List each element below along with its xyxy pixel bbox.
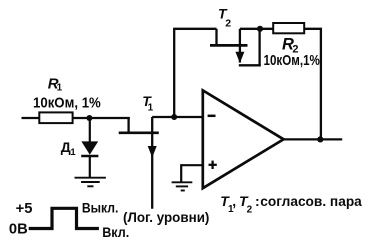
transistor T2 (compensation JFET) <box>210 29 248 63</box>
svg-text:Выкл.: Выкл. <box>82 199 119 215</box>
svg-text:Д: Д <box>61 139 71 155</box>
ground below D1 <box>75 178 106 187</box>
svg-text:1: 1 <box>70 147 76 158</box>
svg-text:(Лог. уровни): (Лог. уровни) <box>123 209 209 225</box>
wire: summing junction up to top feedback rail <box>173 29 175 117</box>
node: output junction with feedback <box>317 136 323 142</box>
wire: feedback right vertical down to output <box>320 29 322 140</box>
svg-text:0B: 0B <box>9 221 28 238</box>
svg-text:,: , <box>232 193 236 209</box>
wire: T2 gate loop to source (bottom and right of loop) <box>239 29 261 67</box>
svg-text:согласов. пара: согласов. пара <box>260 193 362 209</box>
wire: top rail to T2 drain <box>173 28 216 30</box>
op-amp U1 <box>203 90 284 188</box>
resistor R2 <box>273 23 304 33</box>
node: junction of gate loop with rail <box>257 26 263 32</box>
label T1 <box>142 93 153 114</box>
svg-text:10кОм,1%: 10кОм,1% <box>264 52 320 69</box>
label D1 <box>61 139 77 158</box>
wire: input stub left of R1 <box>22 117 41 119</box>
svg-text:2: 2 <box>247 205 253 216</box>
svg-text:10кОм, 1%: 10кОм, 1% <box>33 94 101 111</box>
wire: junction down to diode anode <box>89 118 91 142</box>
wire: T1 source to op-amp inverting input (summing junction) <box>152 116 203 118</box>
caption: T1 T2 matched pair <box>220 193 362 216</box>
ground at op-amp noninverting input <box>172 182 193 190</box>
node: summing junction <box>171 114 177 120</box>
label R1 <box>48 75 63 93</box>
resistor R1 <box>39 112 72 123</box>
svg-text:Вкл.: Вкл. <box>102 224 129 240</box>
svg-text:1: 1 <box>148 103 154 114</box>
wire: noninverting input to ground <box>181 164 203 182</box>
svg-text:+5: +5 <box>16 200 33 217</box>
logic levels pulse waveform <box>29 208 99 228</box>
wire: R1 to T1 drain <box>73 117 130 119</box>
node: junction above diode D1 <box>86 115 92 121</box>
svg-text::: : <box>255 193 260 209</box>
wire: op-amp output <box>283 138 342 140</box>
transistor T1 (JFET switch) <box>119 117 159 209</box>
label T2 <box>218 5 231 29</box>
wire: T2 source/top rail to R2 <box>240 28 274 30</box>
diode D1 <box>81 141 98 156</box>
label R2 <box>282 35 299 55</box>
svg-text:1: 1 <box>57 83 63 94</box>
svg-text:2: 2 <box>225 17 231 29</box>
op-amp minus sign <box>208 115 216 118</box>
op-amp plus sign <box>209 161 217 169</box>
wire: diode cathode to ground <box>89 157 91 178</box>
wire: R2 right to feedback corner <box>304 28 322 30</box>
